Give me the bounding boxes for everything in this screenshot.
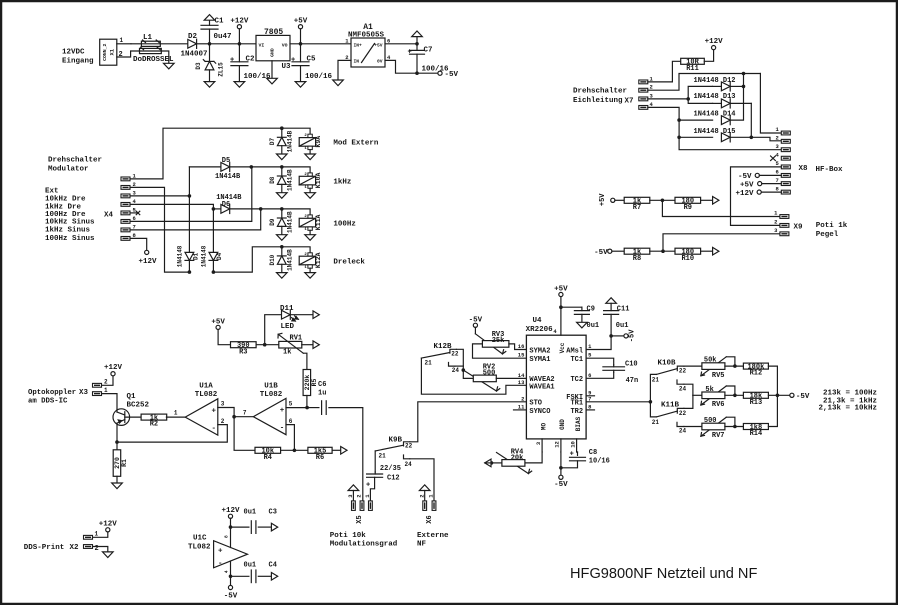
wire RV3 right to pin16 [509, 344, 527, 350]
svg-text:Eingang: Eingang [62, 57, 94, 65]
wire to R14 [725, 426, 744, 428]
wire X4 pin8 to +12V [130, 238, 147, 250]
svg-text:1: 1 [304, 147, 307, 151]
svg-text:D6: D6 [222, 201, 230, 209]
node D2/C1/D3 junction [208, 42, 212, 46]
diode D11 LED [280, 305, 313, 331]
node R7/R9 [661, 199, 665, 203]
svg-text:VO: VO [282, 42, 288, 48]
svg-text:1u: 1u [318, 389, 326, 397]
svg-text:R12: R12 [750, 370, 763, 378]
svg-text:SYMA1: SYMA1 [529, 356, 550, 364]
wire L1 lower to ground [161, 51, 169, 63]
svg-text:R14: R14 [750, 430, 763, 438]
power +12V (X8 pin8) [735, 190, 781, 198]
svg-text:Ext: Ext [45, 188, 59, 196]
svg-text:213k = 100Hz: 213k = 100Hz [823, 390, 877, 398]
node D6 anode [212, 207, 216, 211]
svg-text:TR2: TR2 [570, 408, 583, 416]
svg-text:8: 8 [224, 535, 230, 538]
switch K9B [375, 436, 412, 468]
wire X3 pin1 to Q1 [102, 394, 118, 410]
resistor R7 1k [624, 197, 650, 212]
svg-text:X9: X9 [794, 223, 804, 231]
svg-text:HFG9800NF Netzteil und NF: HFG9800NF Netzteil und NF [570, 566, 757, 582]
svg-text:R13: R13 [750, 399, 763, 407]
wire K10B 22 to RV5 [684, 365, 702, 367]
node RV6/R13 [733, 394, 737, 398]
svg-text:D4: D4 [216, 252, 223, 260]
label 1kHz [333, 178, 351, 186]
svg-text:SYNCO: SYNCO [529, 408, 550, 416]
potentiometer RV1 1k [278, 333, 313, 356]
svg-text:SYMA2: SYMA2 [529, 347, 550, 355]
op-amp U1C TL082 [188, 535, 248, 574]
pin 2 label [521, 395, 524, 402]
svg-text:21: 21 [425, 360, 433, 367]
power +12V (X3) [104, 364, 123, 376]
node RV7/R14 [733, 425, 737, 429]
arrow (RV4, left) [485, 459, 492, 467]
capacitor C1 0u47 [201, 18, 232, 44]
svg-text:500: 500 [483, 370, 496, 378]
resistor R13 18k [743, 392, 768, 407]
pin 10 label (BIAS) [569, 439, 576, 452]
wire X1 pin2 [117, 51, 140, 59]
svg-text:22: 22 [451, 350, 459, 357]
wire C6 to X5 pin2 [329, 408, 363, 501]
svg-text:3: 3 [133, 189, 137, 196]
svg-text:1kHz: 1kHz [333, 178, 351, 186]
svg-text:R11: R11 [686, 65, 699, 73]
wire STO line (K9B 22 to U4 pin2) [410, 402, 527, 442]
svg-text:5k: 5k [705, 386, 713, 394]
wire U1B pin5 [286, 400, 307, 407]
node D9 junction [280, 207, 284, 211]
svg-text:Q1: Q1 [127, 393, 137, 401]
svg-text:C3: C3 [269, 509, 277, 517]
svg-text:TL082: TL082 [260, 391, 283, 399]
svg-text:+: + [212, 407, 217, 415]
svg-text:24: 24 [405, 461, 413, 468]
svg-text:XR2206: XR2206 [526, 326, 554, 334]
wire U3 out [290, 43, 351, 45]
node C7 top [415, 42, 419, 46]
capacitor C9 0u1 [561, 305, 599, 330]
connector X5 Poti Modulationsgrad [347, 494, 372, 524]
wire U1A pin3 [218, 400, 234, 416]
wire X7 pin1 to R11 [648, 61, 681, 82]
wire K9B pivot to C12 [374, 451, 376, 472]
svg-text:D7: D7 [269, 138, 276, 146]
svg-text:HF-Box: HF-Box [816, 166, 844, 174]
ground (D3) [204, 82, 215, 88]
svg-text:0V: 0V [377, 59, 383, 65]
resistor R8 1k [624, 248, 650, 263]
svg-text:2: 2 [221, 418, 225, 425]
wire K12B pivot to pin13 [421, 358, 526, 394]
svg-text:C10: C10 [625, 360, 638, 368]
svg-text:6: 6 [289, 418, 293, 425]
svg-text:-: - [280, 424, 285, 432]
svg-text:100Hz: 100Hz [333, 220, 356, 228]
svg-text:+12V: +12V [104, 364, 123, 372]
svg-text:C4: C4 [269, 562, 277, 570]
svg-text:2: 2 [650, 84, 653, 91]
wire 1kHz row [251, 166, 281, 168]
wire R9 out [701, 199, 713, 201]
switch K10B [650, 359, 686, 401]
svg-text:+5V: +5V [294, 17, 308, 25]
svg-text:2: 2 [356, 494, 363, 497]
regulator U3 7805 [256, 28, 291, 79]
svg-text:R2: R2 [150, 421, 158, 429]
wire X2 pin1 to +12V [93, 532, 108, 537]
wire R5 to U1B+ [306, 396, 308, 408]
wire X4 pin7 to 100Hz row [130, 209, 261, 230]
wire node to +12V tap [210, 43, 257, 45]
node pin4/D15 [677, 136, 681, 140]
svg-text:1N414B: 1N414B [287, 211, 294, 233]
wire R14 right [768, 395, 777, 426]
inductor L1 DoDROSSEL [131, 34, 174, 64]
resistor R5 220k [303, 370, 318, 396]
node D8 junction [280, 165, 284, 169]
power -5V (RV3) [469, 317, 483, 334]
ground (C2) [234, 82, 245, 88]
svg-text:Drehschalter: Drehschalter [48, 157, 102, 165]
power -5V (U1C) [224, 585, 238, 600]
note frequency values [818, 390, 877, 413]
diode D8 1N4148 (vertical) [269, 167, 293, 193]
wire R7 to R9 [650, 199, 675, 201]
wire X4 pin2 to bottom bus [130, 187, 189, 272]
resistor R14 1k8 [743, 424, 768, 439]
wire X4 pin6 to 1kHz row [130, 167, 252, 222]
wire X2 pin2 to ground [93, 547, 108, 552]
capacitor C2 100/16 [230, 44, 271, 82]
ground (D7) [277, 154, 288, 160]
node D1 bottom [188, 270, 192, 274]
svg-text:D11: D11 [280, 305, 294, 313]
wire to R13 [725, 394, 744, 396]
wire K11B 24 to RV7 [684, 426, 702, 428]
svg-text:Modulationsgrad: Modulationsgrad [330, 541, 398, 549]
power +5V (R7) [599, 193, 624, 206]
svg-text:D10: D10 [269, 254, 276, 265]
svg-text:50k: 50k [704, 357, 717, 365]
node C5 junction [299, 42, 303, 46]
ground (K9A) [305, 154, 316, 160]
svg-text:4: 4 [553, 328, 557, 335]
ground (D10) [277, 273, 288, 279]
node RV4 left [490, 461, 494, 465]
svg-text:Dreleck: Dreleck [333, 258, 365, 266]
svg-text:C11: C11 [617, 305, 630, 313]
resistor R10 180 [675, 248, 701, 263]
connector X3 [93, 379, 109, 396]
svg-text:+5V: +5V [599, 193, 607, 206]
diode D9 1N4148 (vertical) [269, 209, 293, 235]
resistor R1 270 [113, 442, 128, 483]
svg-text:21: 21 [652, 376, 660, 383]
diode D1 1N4148 (vertical) [177, 196, 200, 272]
resistor R12 180k [743, 363, 768, 378]
svg-text:Pegel: Pegel [816, 231, 839, 239]
power -5V (C11) [611, 329, 636, 342]
svg-text:7: 7 [133, 223, 136, 230]
svg-text:3: 3 [535, 441, 542, 445]
svg-text:2: 2 [133, 181, 136, 188]
connector X6 Externe NF [418, 494, 436, 524]
svg-text:+5V: +5V [740, 181, 754, 189]
wire X7 pin3 [648, 98, 688, 100]
diode D10 1N4148 (vertical) [269, 247, 293, 273]
svg-text:1N4148: 1N4148 [177, 245, 184, 267]
wire U1B pin6 feedback [286, 418, 294, 450]
svg-text:U1C: U1C [193, 535, 207, 543]
wire K12B 22 down [456, 349, 463, 370]
pin 12 label (GND) [554, 439, 561, 452]
pin 5 label [588, 352, 592, 359]
pin 6 label [588, 372, 591, 379]
resistor R11 10R [681, 58, 705, 73]
wire L1 to D2 [160, 43, 188, 45]
ground (C5) [295, 82, 306, 88]
svg-text:GND: GND [559, 419, 566, 430]
svg-text:2: 2 [775, 135, 778, 142]
svg-text:D9: D9 [269, 218, 276, 226]
svg-text:K11A: K11A [315, 215, 322, 231]
wire X7 pin2 top bus [648, 74, 761, 91]
svg-text:20k: 20k [511, 455, 524, 463]
ground (C1, up) [204, 15, 215, 21]
wire U4 pin5 TC1 [586, 358, 614, 365]
svg-text:RV5: RV5 [712, 372, 725, 380]
wire X4 pin1 to Mod Extern row [130, 128, 282, 179]
power +5V (R3) [211, 319, 230, 345]
svg-text:22: 22 [679, 367, 687, 374]
power +5V (7805 out) [294, 17, 308, 44]
svg-text:GND: GND [270, 48, 276, 57]
svg-text:TL082: TL082 [188, 543, 211, 551]
node RV5/R12 [733, 364, 737, 368]
capacitor C3 0u1 [231, 509, 277, 534]
op-amp U1B TL082 [253, 382, 286, 434]
node -5V/C4 [229, 575, 233, 579]
node U1B+/R5/C6 [305, 406, 309, 410]
svg-text:12: 12 [554, 441, 561, 448]
wire K10B 24 to RV6 row [684, 384, 693, 395]
svg-text:IN: IN [354, 59, 360, 65]
svg-text:RV1: RV1 [290, 335, 303, 343]
relay coil K11A [282, 209, 322, 235]
svg-text:+12V: +12V [705, 38, 724, 46]
connector X7 [639, 75, 654, 109]
svg-text:TR1: TR1 [570, 400, 583, 408]
diode D15 1N4148 [679, 128, 751, 142]
node C11/-5V/AMsl [609, 334, 613, 338]
label DDS-Print [24, 544, 79, 552]
power +12V (input rail) [230, 17, 249, 44]
node pin3/D1/D5 [188, 194, 192, 198]
connector X2 [84, 531, 99, 553]
svg-text:8: 8 [133, 232, 137, 239]
ground (L1) [164, 63, 175, 69]
node D6 cathode [259, 207, 263, 211]
svg-text:Modulator: Modulator [48, 165, 89, 173]
pin 9 label [586, 389, 594, 396]
wire U1C V- down [230, 561, 232, 585]
label Poti 10k Modulationsgrad [330, 532, 398, 549]
svg-text:L1: L1 [143, 34, 153, 42]
svg-text:+12V: +12V [735, 190, 754, 198]
svg-text:1N414B: 1N414B [287, 130, 294, 152]
svg-text:8: 8 [775, 185, 779, 192]
ground (above C7, up) [412, 31, 423, 44]
svg-text:C1: C1 [215, 18, 225, 26]
wire K9B 24 to X6 [410, 459, 434, 501]
svg-text:CONN_2: CONN_2 [102, 43, 108, 60]
wire node to RV2 [463, 370, 473, 378]
svg-text:IN+: IN+ [354, 43, 363, 49]
svg-text:1: 1 [650, 75, 654, 82]
diode D14 1N4148 [679, 111, 735, 125]
wire D15 node to X8 pin2 [751, 137, 781, 141]
transistor Q1 BC252 [113, 393, 150, 442]
svg-text:1: 1 [174, 410, 178, 417]
svg-text:K10A: K10A [315, 173, 322, 189]
wire cathode bus [730, 74, 743, 121]
svg-text:R1: R1 [121, 459, 128, 467]
svg-text:-: - [218, 560, 223, 568]
capacitor C5 100/16 [291, 44, 333, 82]
svg-text:100/16: 100/16 [244, 73, 272, 81]
resistor R2 1k [141, 414, 167, 429]
ground (X5 pin3, up) [348, 485, 359, 501]
arrow (R6 out) [341, 447, 347, 455]
svg-text:10kHz Sinus: 10kHz Sinus [45, 219, 95, 227]
node U1A out / U1B in [232, 415, 236, 419]
svg-text:Eichleitung: Eichleitung [573, 97, 623, 105]
diode D5 1N4148 [189, 157, 251, 181]
power +12V (U1C) [221, 507, 240, 547]
svg-text:DDS-Print: DDS-Print [24, 544, 65, 552]
svg-text:24: 24 [679, 428, 687, 435]
ground (K12A) [305, 273, 316, 279]
ground (A1) [333, 80, 344, 86]
potentiometer RV3 25k [475, 331, 509, 354]
svg-text:100Hz Sinus: 100Hz Sinus [45, 235, 95, 243]
svg-text:1k: 1k [283, 349, 291, 357]
label X4 positions [45, 188, 95, 243]
svg-text:D8: D8 [269, 176, 276, 184]
svg-text:21: 21 [379, 452, 387, 459]
svg-text:+: + [291, 57, 295, 65]
resistor R9 180 [675, 197, 701, 212]
svg-text:+12V: +12V [221, 507, 240, 515]
relay coil K9A [282, 128, 322, 154]
power -5V (R8) [594, 249, 624, 257]
svg-text:1: 1 [95, 531, 99, 538]
diode D7 1N4148 (vertical) [269, 128, 293, 154]
wire A1 +5V out [385, 43, 417, 45]
capacitor C7 100/16 [408, 44, 450, 74]
wire K12B 24 [455, 365, 463, 367]
wire X4 pin3 to D1/D5 [130, 195, 189, 197]
svg-text:4: 4 [224, 570, 230, 573]
node +12V/C3 [229, 525, 233, 529]
svg-text:X2: X2 [70, 544, 80, 552]
svg-text:X8: X8 [799, 165, 809, 173]
capacitor C4 0u1 [231, 562, 277, 583]
diode D6 1N4148 [213, 194, 260, 214]
potentiometer RV2 500 [463, 363, 500, 391]
potentiometer RV6 5k [701, 386, 735, 409]
svg-text:X7: X7 [625, 97, 634, 105]
svg-text:Poti 1k: Poti 1k [816, 222, 848, 230]
capacitor C6 1u [307, 381, 326, 415]
svg-text:NMF0505S: NMF0505S [348, 32, 385, 40]
svg-text:0u1: 0u1 [244, 509, 257, 517]
svg-text:3: 3 [775, 143, 779, 150]
potentiometer RV5 50k [701, 357, 735, 380]
node TR1/K10B/K11B [649, 400, 653, 404]
power -5V (U4 GND) [554, 475, 568, 489]
diode D4 1N4148 (vertical) [201, 209, 224, 272]
wire R8 to R10 [650, 250, 675, 252]
node R8/R10 [661, 249, 665, 253]
svg-text:7805: 7805 [264, 28, 283, 37]
svg-text:+: + [366, 481, 370, 489]
svg-text:-5V: -5V [445, 71, 459, 79]
svg-text:1N414B: 1N414B [287, 249, 294, 271]
no-connect X8 pin4 [771, 156, 776, 161]
svg-text:7: 7 [775, 177, 778, 184]
svg-text:25k: 25k [492, 337, 505, 345]
svg-text:22/35: 22/35 [380, 465, 401, 473]
svg-text:+: + [408, 48, 412, 56]
pin 15 label [518, 352, 525, 359]
wire U1A pin2 feedback [117, 418, 227, 442]
svg-text:0u47: 0u47 [214, 33, 232, 41]
svg-text:+5V: +5V [374, 43, 383, 49]
node top bus / D-bus [742, 72, 746, 76]
svg-text:10: 10 [569, 441, 576, 448]
ground (U3) [267, 78, 278, 84]
resistor R3 390 [231, 342, 257, 357]
label Drehschalter Modulator [48, 157, 102, 174]
capacitor C10 47n [603, 360, 638, 384]
ground (C9) [577, 322, 588, 328]
power +5V (X8 pin7) [740, 181, 781, 189]
svg-text:DoDROSSEL: DoDROSSEL [133, 56, 174, 64]
svg-text:12VDC: 12VDC [62, 48, 85, 56]
svg-text:BC252: BC252 [127, 401, 150, 409]
svg-text:TC2: TC2 [570, 376, 583, 384]
pin 1 label [588, 343, 592, 350]
arrow (R10 out) [713, 247, 719, 255]
node D10 junction [280, 245, 284, 249]
capacitor C11 0u1 [604, 305, 630, 336]
wire U4 pin6 TC2 [586, 372, 614, 378]
svg-text:AMsl: AMsl [566, 347, 583, 355]
ground (D9) [277, 235, 288, 241]
svg-text:Vcc: Vcc [559, 342, 566, 353]
svg-text:7: 7 [243, 410, 247, 417]
svg-text:WAVEA1: WAVEA1 [529, 383, 554, 391]
wire MO to RV4 [525, 452, 542, 463]
